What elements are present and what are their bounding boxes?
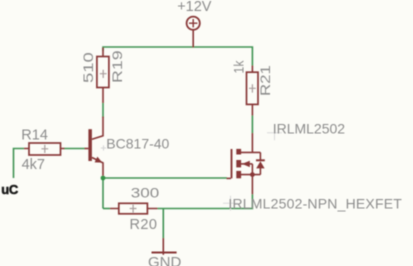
svg-text:4k7: 4k7: [22, 157, 45, 173]
svg-text:1k: 1k: [231, 60, 247, 73]
svg-text:R20: R20: [130, 217, 158, 233]
svg-text:uC: uC: [1, 182, 19, 197]
svg-text:510: 510: [81, 52, 96, 83]
svg-text:R14: R14: [21, 127, 48, 143]
svg-text:IRLML2502-NPN_HEXFET: IRLML2502-NPN_HEXFET: [228, 196, 402, 212]
svg-text:IRLML2502: IRLML2502: [273, 121, 346, 137]
svg-text:+12V: +12V: [177, 0, 212, 15]
svg-text:BC817-40: BC817-40: [106, 136, 169, 152]
svg-text:R19: R19: [110, 50, 125, 83]
svg-text:GND: GND: [148, 254, 182, 266]
svg-text:R21: R21: [258, 65, 273, 96]
svg-text:300: 300: [131, 186, 160, 201]
